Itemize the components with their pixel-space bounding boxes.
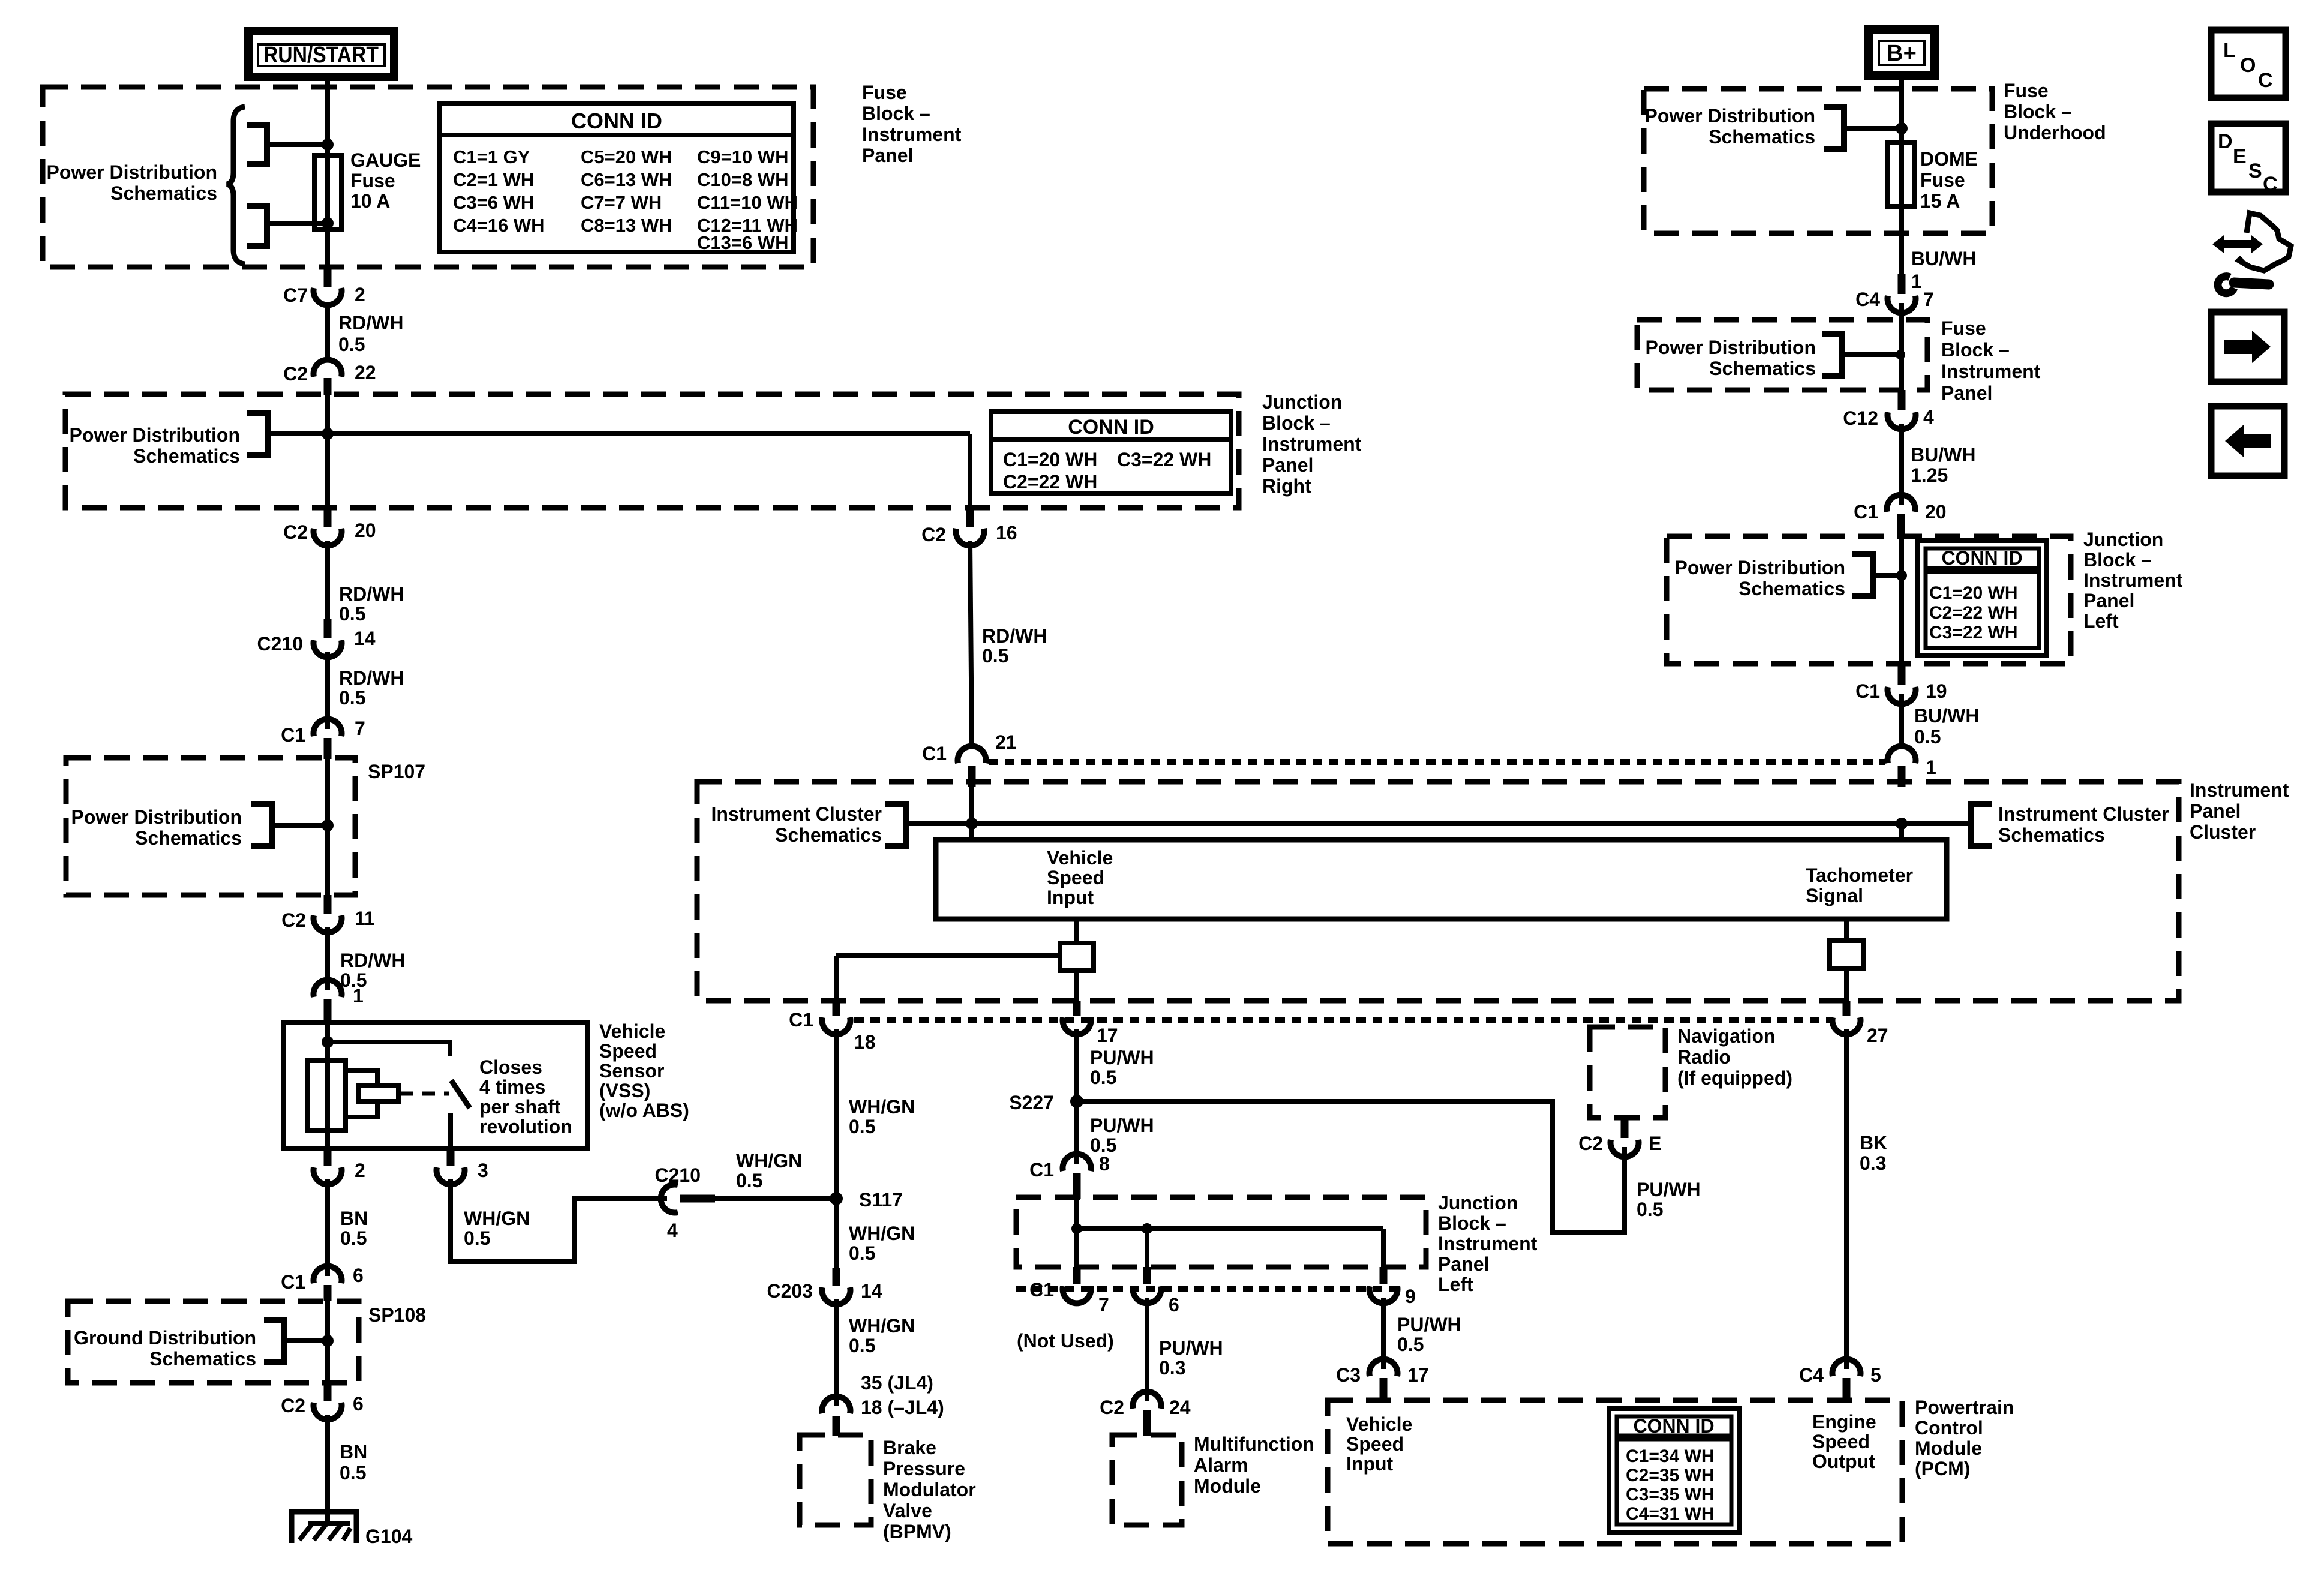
wire PU/WH 0.3 (pin6 to C2 24) [1147, 1298, 1223, 1401]
svg-text:Block –: Block – [2083, 549, 2152, 571]
svg-text:B+: B+ [1887, 41, 1917, 66]
svg-text:Block –: Block – [2004, 101, 2072, 122]
icon box arrow left [2211, 406, 2284, 476]
svg-text:Instrument: Instrument [1262, 433, 1362, 455]
svg-text:C9=10 WH: C9=10 WH [697, 146, 788, 167]
label Navigation Radio (If equipped) [1677, 1025, 1792, 1089]
svg-text:0.5: 0.5 [1397, 1334, 1424, 1355]
svg-text:0.5: 0.5 [1637, 1199, 1663, 1220]
svg-text:C1: C1 [281, 1271, 305, 1293]
svg-text:C7=7 WH: C7=7 WH [581, 192, 662, 213]
connector pin 1 (cluster) [1888, 746, 1936, 787]
svg-text:C3: C3 [1336, 1364, 1361, 1386]
wire square to C1 18 row [1074, 971, 1079, 1001]
label wire PU/WH 0.5 (nav radio) [1637, 1179, 1701, 1220]
svg-text:C12: C12 [1843, 407, 1878, 429]
svg-text:6: 6 [353, 1393, 364, 1415]
svg-text:C11=10 WH: C11=10 WH [697, 192, 798, 213]
connector BPMV pin [822, 1397, 850, 1436]
svg-text:CONN ID: CONN ID [571, 109, 662, 133]
brake pressure modulator valve dashed box [800, 1435, 871, 1525]
wire bracket to feed (junction block left) [1873, 573, 1902, 578]
svg-text:S227: S227 [1009, 1092, 1054, 1113]
svg-text:Schematics: Schematics [135, 827, 242, 849]
svg-text:5: 5 [1870, 1364, 1881, 1386]
svg-text:BN: BN [340, 1208, 368, 1229]
svg-text:PU/WH: PU/WH [1637, 1179, 1701, 1200]
wire BU/WH 1 (fuse to C4) [1902, 206, 1976, 292]
wire C210 to S117 [715, 1196, 836, 1201]
svg-text:C: C [2263, 173, 2278, 196]
wire PU/WH 0.5 (17 to S227) [1077, 1029, 1154, 1101]
svg-text:Power Distribution: Power Distribution [71, 806, 242, 828]
svg-text:C5=20 WH: C5=20 WH [581, 146, 672, 167]
svg-text:18: 18 [854, 1031, 876, 1053]
connector C203 pin 14 [767, 1268, 882, 1304]
wire BN 0.5 (to ground) [328, 1415, 367, 1526]
ground G104 [292, 1509, 412, 1547]
svg-text:24: 24 [1169, 1397, 1191, 1418]
svg-text:C13=6 WH: C13=6 WH [697, 232, 788, 253]
label Engine Speed Output [1812, 1411, 1876, 1472]
label Junction Block - Instrument Panel Left (upper) [2083, 529, 2183, 632]
svg-text:C3=22 WH: C3=22 WH [1117, 449, 1211, 470]
label DOME Fuse 15 A [1920, 148, 1978, 212]
junction block IP right dashed box [65, 394, 1239, 508]
wire VSS internal vertical [325, 1023, 330, 1148]
label Junction Block - Instrument Panel Right [1262, 391, 1362, 497]
svg-text:C1: C1 [1855, 680, 1880, 702]
node VSS internal junction [322, 1036, 334, 1048]
svg-text:Panel: Panel [2083, 590, 2134, 611]
node cluster bus left [966, 818, 978, 830]
label Vehicle Speed Sensor (VSS) (w/o ABS) [599, 1020, 689, 1121]
svg-text:DOME: DOME [1920, 148, 1978, 170]
label GAUGE Fuse 10 A [350, 149, 421, 212]
wire BU/WH 1.25 (C12 to C1) [1902, 424, 1975, 505]
label Brake Pressure Modulator Valve (BPMV) [883, 1437, 976, 1542]
connector C12 pin 4 [1843, 390, 1934, 429]
junction block IP left upper dashed box [1667, 536, 2071, 664]
power feed label RUN/START [248, 31, 394, 77]
svg-text:RUN/START: RUN/START [263, 43, 379, 68]
svg-text:Schematics: Schematics [1709, 126, 1815, 148]
svg-text:C1: C1 [1029, 1279, 1054, 1301]
svg-text:C4=31 WH: C4=31 WH [1626, 1504, 1715, 1524]
wire WH/GN 0.5 (C1 18 to S117) [836, 1029, 915, 1199]
svg-text:0.3: 0.3 [1860, 1152, 1886, 1174]
svg-text:C3=35 WH: C3=35 WH [1626, 1485, 1715, 1505]
svg-text:Left: Left [1438, 1274, 1473, 1295]
svg-text:Panel: Panel [862, 145, 913, 166]
svg-text:Sensor: Sensor [599, 1060, 664, 1082]
connector pin 17 [1063, 1001, 1118, 1046]
connector VSS pin 2 [314, 1148, 365, 1184]
svg-text:Pressure: Pressure [883, 1458, 965, 1479]
svg-text:Instrument Cluster: Instrument Cluster [1998, 803, 2169, 825]
svg-text:C7: C7 [283, 284, 308, 306]
svg-text:C4: C4 [1855, 289, 1880, 310]
svg-text:C2: C2 [281, 1395, 305, 1416]
label Vehicle Speed Input (PCM) [1346, 1413, 1412, 1475]
svg-text:E: E [2233, 145, 2247, 168]
svg-text:D: D [2218, 130, 2233, 153]
wire RD/WH 0.5 (C2 16 down) [970, 541, 1047, 747]
svg-text:0.3: 0.3 [1159, 1357, 1185, 1379]
svg-text:PU/WH: PU/WH [1159, 1337, 1223, 1359]
svg-text:C4: C4 [1799, 1364, 1824, 1386]
svg-text:0.5: 0.5 [340, 1462, 366, 1484]
svg-text:Valve: Valve [883, 1500, 932, 1521]
svg-text:C1=20 WH: C1=20 WH [1003, 449, 1097, 470]
svg-text:E: E [1649, 1133, 1661, 1154]
powertrain control module dashed box [1328, 1400, 1902, 1544]
svg-text:C1=20 WH: C1=20 WH [1929, 583, 2018, 603]
wire RD/WH 0.5 (C2 11 to VSS) [328, 927, 405, 991]
svg-text:20: 20 [1925, 501, 1947, 523]
svg-text:WH/GN: WH/GN [849, 1096, 915, 1118]
svg-text:BK: BK [1860, 1132, 1887, 1154]
connector C1 pin 7 (not used) [1017, 1267, 1114, 1352]
conn id table fuse block IP [440, 103, 798, 253]
wire BN 0.5 (pin2 down) [328, 1179, 368, 1276]
svg-text:Fuse: Fuse [2004, 80, 2049, 101]
label Instrument Panel Cluster [2190, 779, 2289, 843]
fuse terminal lower [247, 206, 328, 246]
splice SP108 dashed box [68, 1301, 426, 1383]
connector C1 pin 19 [1855, 664, 1947, 704]
svg-text:C203: C203 [767, 1280, 813, 1302]
svg-text:20: 20 [355, 520, 376, 541]
harness dotted line junction block bottom [1016, 1286, 1401, 1292]
svg-text:L: L [2223, 39, 2236, 62]
svg-text:0.5: 0.5 [339, 687, 365, 709]
svg-text:0.5: 0.5 [849, 1335, 875, 1356]
svg-text:Output: Output [1812, 1451, 1875, 1472]
multifunction alarm module dashed box [1112, 1435, 1182, 1525]
svg-text:C2: C2 [283, 521, 308, 543]
svg-text:Control: Control [1915, 1417, 1983, 1439]
instrument cluster internal box [936, 840, 1947, 919]
svg-text:C2: C2 [921, 524, 946, 545]
label Fuse Block - Instrument Panel (right) [1941, 317, 2041, 404]
wire from RUN/START to fuse block [325, 77, 330, 91]
svg-text:Input: Input [1047, 887, 1094, 908]
svg-text:Instrument Cluster: Instrument Cluster [711, 803, 882, 825]
svg-text:2: 2 [355, 284, 365, 305]
svg-text:35 (JL4): 35 (JL4) [861, 1372, 933, 1394]
svg-text:C1=1 GY: C1=1 GY [453, 146, 530, 167]
svg-text:7: 7 [1098, 1294, 1109, 1316]
wire bracket to B+ feed [1844, 126, 1902, 131]
svg-text:G104: G104 [365, 1526, 412, 1547]
svg-text:Panel: Panel [1941, 382, 1992, 404]
fuse block - instrument panel dashed box [43, 87, 813, 267]
wire through SP107 box [325, 759, 330, 895]
svg-text:PU/WH: PU/WH [1397, 1314, 1461, 1335]
svg-text:(If equipped): (If equipped) [1677, 1067, 1792, 1089]
label Fuse Block - Underhood [2004, 80, 2106, 143]
svg-text:Junction: Junction [1262, 391, 1342, 413]
svg-text:BU/WH: BU/WH [1914, 705, 1979, 727]
svg-text:0.5: 0.5 [1914, 726, 1941, 748]
svg-text:C2=1 WH: C2=1 WH [453, 169, 534, 190]
svg-text:Power Distribution: Power Distribution [70, 424, 240, 446]
svg-text:Panel: Panel [1438, 1253, 1489, 1275]
svg-text:Brake: Brake [883, 1437, 936, 1458]
wire RD/WH 0.5 (C210 to C1) [328, 652, 404, 729]
svg-text:Speed: Speed [1346, 1433, 1404, 1455]
wire RD/WH 0.5 (C7 to C2) [328, 302, 403, 361]
svg-text:C3=6 WH: C3=6 WH [453, 192, 534, 213]
svg-text:7: 7 [355, 718, 365, 739]
svg-text:Block –: Block – [1262, 412, 1331, 434]
svg-text:4: 4 [667, 1220, 678, 1241]
svg-text:Junction: Junction [2083, 529, 2163, 550]
svg-text:BU/WH: BU/WH [1911, 444, 1975, 466]
junction block IP left dashed box [1016, 1197, 1426, 1267]
svg-text:(BPMV): (BPMV) [883, 1521, 951, 1542]
navigation radio dashed box [1590, 1027, 1665, 1118]
svg-text:SP108: SP108 [368, 1304, 426, 1326]
svg-text:C6=13 WH: C6=13 WH [581, 169, 672, 190]
svg-text:Instrument: Instrument [2083, 569, 2183, 591]
svg-text:O: O [2240, 54, 2256, 77]
fuse block IP dashed box right [1637, 320, 1927, 390]
svg-text:Schematics: Schematics [775, 824, 882, 846]
fuse GAUGE 10A [314, 155, 341, 229]
wire bracket to SP107 [272, 823, 328, 828]
svg-text:Junction: Junction [1438, 1192, 1518, 1214]
svg-text:Tachometer: Tachometer [1806, 864, 1913, 886]
svg-text:Block –: Block – [1941, 339, 2010, 361]
svg-text:0.5: 0.5 [464, 1227, 490, 1249]
fuse terminal upper [247, 125, 328, 164]
svg-text:16: 16 [996, 522, 1017, 544]
svg-text:BN: BN [340, 1441, 367, 1463]
connector pin 27 [1833, 1001, 1888, 1046]
wire through fuse block IP [1899, 303, 1904, 390]
svg-text:0.5: 0.5 [340, 1227, 367, 1249]
connector VSS pin 3 [437, 1148, 488, 1184]
sensor actuator plunger [359, 1086, 398, 1101]
svg-text:(VSS): (VSS) [599, 1080, 650, 1101]
svg-text:Speed: Speed [1047, 867, 1104, 888]
harness dotted line cluster bottom [854, 1017, 1830, 1023]
svg-text:per shaft: per shaft [479, 1096, 560, 1118]
battery feed label B+ [1869, 29, 1935, 76]
switch blade [451, 1080, 470, 1108]
svg-text:GAUGE: GAUGE [350, 149, 421, 171]
svg-text:Vehicle: Vehicle [599, 1020, 665, 1042]
node splice S227 [1009, 1092, 1083, 1113]
wire bracket to feed (fuse block IP) [1842, 352, 1902, 357]
svg-text:17: 17 [1407, 1364, 1429, 1386]
svg-text:Right: Right [1262, 475, 1311, 497]
svg-text:RD/WH: RD/WH [338, 312, 403, 334]
conn id table junction block left [1918, 541, 2047, 656]
svg-text:3: 3 [478, 1160, 488, 1181]
svg-text:C2: C2 [1100, 1397, 1124, 1418]
svg-text:Fuse: Fuse [862, 82, 907, 103]
vehicle speed sensor box [284, 1023, 588, 1148]
svg-text:BU/WH: BU/WH [1911, 248, 1976, 269]
wire BK 0.3 (27 to PCM) [1846, 1029, 1887, 1369]
connector C2 pin 6 [281, 1383, 364, 1419]
svg-text:RD/WH: RD/WH [339, 667, 404, 689]
svg-text:11: 11 [355, 908, 375, 929]
svg-text:C1: C1 [1854, 501, 1878, 523]
icon box arrow right [2211, 312, 2284, 382]
svg-text:Instrument: Instrument [1941, 361, 2041, 382]
svg-text:Multifunction: Multifunction [1194, 1433, 1314, 1455]
svg-text:1.25: 1.25 [1911, 464, 1948, 486]
cluster feed bus wire [906, 821, 1971, 826]
wire bus to cluster box left [969, 824, 974, 840]
svg-text:WH/GN: WH/GN [464, 1208, 530, 1229]
svg-text:C2=35 WH: C2=35 WH [1626, 1466, 1715, 1485]
wire WH/GN 0.5 (S117 to C203) [836, 1199, 915, 1268]
wire bracket to SP108 [284, 1338, 328, 1343]
svg-text:1: 1 [1926, 757, 1936, 778]
reference Instrument Cluster Schematics left [711, 803, 906, 846]
svg-text:Schematics: Schematics [149, 1348, 256, 1370]
svg-text:19: 19 [1926, 680, 1947, 702]
svg-text:C210: C210 [655, 1164, 701, 1186]
svg-text:Schematics: Schematics [1739, 578, 1845, 599]
node junction block left branch 2 [1142, 1223, 1152, 1234]
node junction below fuse [322, 217, 334, 229]
svg-text:15 A: 15 A [1920, 190, 1960, 212]
connector VSS pin 1 [314, 980, 364, 1023]
wire BU/WH 0.5 (C1 19 down) [1902, 694, 1979, 748]
svg-text:Panel: Panel [1262, 454, 1313, 476]
svg-text:Schematics: Schematics [1709, 358, 1816, 379]
reference Power Distribution Schematics (junction block left) [1675, 554, 1873, 599]
wire bus to cluster box right [1899, 824, 1904, 840]
svg-text:1: 1 [1911, 271, 1922, 292]
svg-text:0.5: 0.5 [849, 1116, 875, 1137]
wire VSS internal to switch [328, 1040, 450, 1056]
label Fuse Block - Instrument Panel [862, 82, 962, 166]
svg-text:Vehicle: Vehicle [1346, 1413, 1412, 1435]
svg-text:Block –: Block – [862, 103, 930, 124]
sensor coil element [308, 1061, 346, 1130]
wire cluster box to tach square [1844, 919, 1849, 941]
svg-text:10 A: 10 A [350, 190, 390, 212]
svg-text:Speed: Speed [599, 1040, 657, 1062]
svg-text:Instrument: Instrument [1438, 1233, 1538, 1254]
reference brace Power Distribution Schematics [47, 107, 245, 264]
svg-text:Power Distribution: Power Distribution [1675, 557, 1845, 578]
svg-text:Signal: Signal [1806, 885, 1863, 906]
svg-text:C3=22 WH: C3=22 WH [1929, 623, 2018, 643]
connector C1 pin 7 [281, 718, 365, 759]
connector C4 pin 7 [1855, 274, 1934, 313]
wire RD/WH 0.5 (C2 to C210) [328, 541, 404, 625]
svg-text:C1=34 WH: C1=34 WH [1626, 1446, 1715, 1466]
connector C4 pin 5 [1799, 1359, 1881, 1401]
wire tach square down [1844, 968, 1849, 1001]
connector C3 pin 17 [1336, 1359, 1429, 1401]
svg-text:Module: Module [1915, 1437, 1982, 1459]
connector C2 pin 20 [283, 508, 376, 545]
svg-text:Underhood: Underhood [2004, 122, 2106, 143]
svg-text:Schematics: Schematics [133, 445, 240, 467]
wire PU/WH 0.5 (S227 to C1 8) [1077, 1101, 1154, 1164]
svg-text:0.5: 0.5 [339, 603, 365, 625]
connector C210 pin 14 [257, 619, 376, 657]
reference Instrument Cluster Schematics right [1971, 803, 2169, 846]
connector C2 pin 24 [1100, 1392, 1191, 1436]
wire to connector C1 18 [836, 956, 1060, 998]
svg-text:S117: S117 [859, 1189, 903, 1211]
svg-text:RD/WH: RD/WH [982, 625, 1047, 647]
wire C1 21 into cluster [969, 787, 974, 824]
svg-text:Instrument: Instrument [2190, 779, 2289, 801]
cluster output square (tach) [1830, 941, 1863, 968]
svg-text:WH/GN: WH/GN [849, 1315, 915, 1337]
svg-text:14: 14 [861, 1280, 882, 1302]
connector C1 pin 8 [1029, 1153, 1110, 1199]
wire through SP108 box [325, 1301, 330, 1383]
svg-text:Fuse: Fuse [1920, 169, 1965, 191]
mechanical linkage dashed [401, 1092, 449, 1096]
svg-text:C: C [2258, 69, 2273, 92]
svg-text:Modulator: Modulator [883, 1479, 976, 1500]
svg-text:C2=22 WH: C2=22 WH [1003, 471, 1097, 493]
svg-text:Closes: Closes [479, 1056, 542, 1078]
svg-text:17: 17 [1097, 1025, 1118, 1046]
harness dotted line C1 top [989, 759, 1885, 765]
svg-text:RD/WH: RD/WH [340, 950, 405, 971]
svg-text:Fuse: Fuse [1941, 317, 1986, 339]
svg-text:Powertrain: Powertrain [1915, 1397, 2014, 1418]
svg-text:0.5: 0.5 [849, 1242, 875, 1264]
svg-text:CONN ID: CONN ID [1941, 547, 2022, 569]
instrument panel cluster dashed box [697, 782, 2179, 1001]
svg-text:Schematics: Schematics [1998, 824, 2105, 846]
svg-text:Power Distribution: Power Distribution [1646, 337, 1816, 358]
svg-text:0.5: 0.5 [338, 334, 365, 355]
connector C2 pin 16 [921, 510, 1017, 545]
reference Power Distribution Schematics (underhood) [1645, 105, 1844, 149]
connector C1 pin 20 [1854, 495, 1947, 538]
node splice SP107 [322, 819, 334, 831]
svg-text:1: 1 [353, 985, 364, 1007]
svg-text:revolution: revolution [479, 1116, 572, 1137]
wire bus to C2 16 [268, 434, 970, 510]
svg-text:Alarm: Alarm [1194, 1454, 1248, 1476]
svg-text:8: 8 [1099, 1153, 1110, 1175]
connector pin 9 [1370, 1267, 1416, 1307]
label Multifunction Alarm Module [1194, 1433, 1314, 1497]
svg-text:WH/GN: WH/GN [736, 1150, 802, 1172]
svg-text:Panel: Panel [2190, 800, 2241, 822]
svg-text:C10=8 WH: C10=8 WH [697, 169, 788, 190]
wire B+ to fuse block [1899, 76, 1904, 144]
svg-text:4: 4 [1923, 406, 1934, 428]
connector C7 pin 2 [283, 269, 365, 306]
svg-text:0.5: 0.5 [736, 1170, 762, 1191]
conn id table junction block right [991, 412, 1231, 494]
reference Ground Distribution Schematics (SP108) [74, 1320, 284, 1370]
node cluster bus right [1896, 818, 1908, 830]
svg-text:Vehicle: Vehicle [1047, 847, 1113, 869]
wire PU/WH 0.5 (pin9 to C3 17) [1383, 1298, 1461, 1369]
svg-text:C8=13 WH: C8=13 WH [581, 215, 672, 236]
svg-text:Speed: Speed [1812, 1431, 1870, 1452]
